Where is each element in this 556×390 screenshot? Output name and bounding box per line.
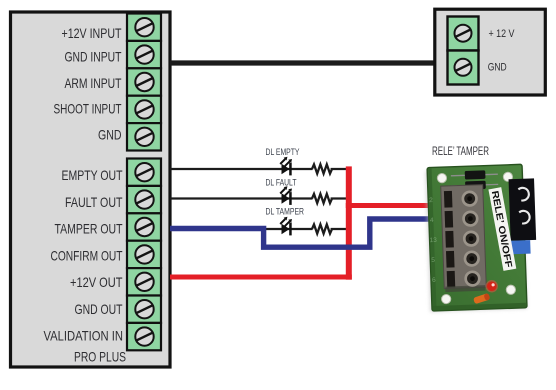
svg-text:DL TAMPER: DL TAMPER	[266, 207, 305, 217]
wire: FAULT OUT row (black)	[170, 197, 349, 199]
PCB board	[427, 164, 527, 311]
label strip RELE' ON/OFF	[488, 187, 516, 271]
mounting hole bottom-right	[506, 285, 516, 295]
svg-text:+ 12 V: + 12 V	[489, 28, 516, 40]
mounting hole top-left	[437, 173, 447, 183]
wire: +12V OUT rail (red)	[170, 166, 430, 279]
LED DL TAMPER	[280, 217, 292, 236]
power supply box	[435, 9, 546, 95]
svg-text:DL EMPTY: DL EMPTY	[266, 147, 300, 157]
resistor (orange) on PCB	[473, 293, 490, 304]
svg-text:GND OUT: GND OUT	[75, 301, 123, 317]
PRO PLUS control box	[11, 12, 171, 367]
terminal wire slots	[444, 191, 455, 288]
svg-text:+12V OUT: +12V OUT	[70, 274, 123, 290]
terminal screw 5	[465, 272, 479, 286]
screws J2	[135, 163, 153, 346]
diode D1	[451, 170, 498, 180]
PSU terminal block (2 poles)	[448, 17, 479, 85]
diode D2	[451, 180, 498, 190]
resistor R2	[312, 194, 332, 203]
wire: TAMPER LED row (black)	[264, 228, 349, 230]
svg-text:CONFIRM OUT: CONFIRM OUT	[51, 248, 123, 264]
terminal screw 1	[463, 192, 477, 206]
screws J1	[135, 18, 153, 146]
svg-text:RELE’ TAMPER: RELE’ TAMPER	[432, 146, 489, 158]
PCB shadow	[425, 168, 527, 312]
terminal screw 2	[463, 212, 477, 226]
svg-text:EMPTY OUT: EMPTY OUT	[62, 167, 123, 183]
svg-text:SHOOT INPUT: SHOOT INPUT	[54, 101, 122, 117]
relay blue capacitor	[511, 240, 531, 254]
svg-text:6: 6	[432, 277, 436, 284]
svg-text:ARM INPUT: ARM INPUT	[65, 75, 122, 91]
terminal screw 4	[465, 252, 479, 266]
svg-text:+12V INPUT: +12V INPUT	[62, 25, 122, 41]
terminal block shadow	[445, 285, 485, 292]
mounting hole top-right	[503, 172, 513, 182]
terminal screw 3	[464, 232, 478, 246]
svg-text:VALIDATION IN: VALIDATION IN	[44, 328, 124, 344]
LED DL EMPTY	[280, 157, 292, 176]
svg-text:GND INPUT: GND INPUT	[65, 49, 122, 65]
wire: TAMPER OUT to relay module (blue)	[170, 219, 430, 247]
LED DL FAULT	[280, 186, 292, 205]
svg-text:PRO PLUS: PRO PLUS	[74, 349, 126, 365]
relay K1 body	[509, 178, 537, 240]
PSU screws	[455, 25, 472, 76]
svg-text:GND: GND	[98, 127, 122, 143]
wire: GND INPUT to PSU GND (black)	[170, 60, 437, 65]
svg-text:2: 2	[429, 197, 433, 204]
resistor R1	[312, 164, 332, 173]
mounting hole bottom-left	[441, 294, 451, 304]
terminal block J1 inputs (5 poles)	[127, 14, 161, 151]
board edge shading	[433, 303, 526, 311]
relay terminal block body	[441, 185, 487, 289]
svg-text:13: 13	[429, 237, 437, 244]
relay module U1	[425, 164, 538, 312]
svg-text:TAMPER OUT: TAMPER OUT	[55, 221, 123, 237]
wire: EMPTY OUT row (black)	[170, 168, 349, 170]
resistor R3	[312, 224, 332, 233]
svg-text:4: 4	[430, 217, 434, 224]
svg-text:GND: GND	[488, 62, 507, 74]
svg-text:5: 5	[431, 257, 435, 264]
silkscreen pin labels	[428, 197, 439, 284]
svg-text:DL FAULT: DL FAULT	[266, 178, 297, 188]
LED DL1 (red)	[485, 280, 498, 293]
svg-text:FAULT OUT: FAULT OUT	[65, 194, 123, 210]
terminal block J2 outputs (7 poles)	[127, 159, 161, 351]
